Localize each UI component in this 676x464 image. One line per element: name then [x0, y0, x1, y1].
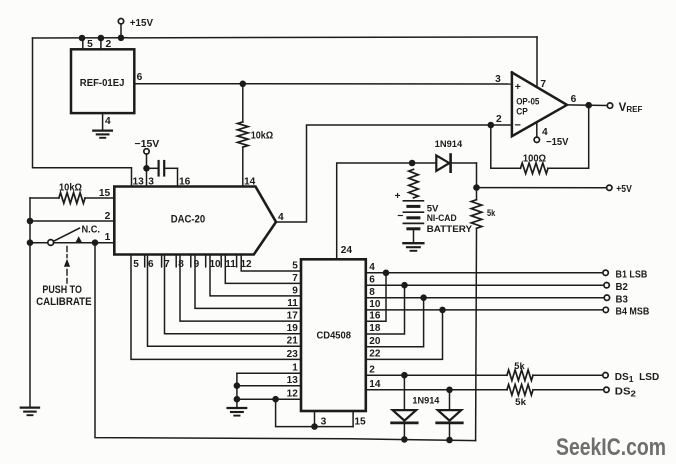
- svg-text:B4 MSB: B4 MSB: [616, 307, 650, 318]
- svg-text:9: 9: [194, 259, 200, 270]
- svg-text:5: 5: [292, 260, 298, 271]
- svg-text:1N914: 1N914: [412, 396, 439, 406]
- svg-text:B2: B2: [616, 282, 629, 293]
- svg-text:23: 23: [287, 349, 299, 360]
- svg-text:4: 4: [278, 212, 284, 223]
- svg-text:6: 6: [148, 259, 154, 270]
- svg-text:+5V: +5V: [616, 184, 632, 195]
- svg-text:2: 2: [105, 211, 111, 222]
- svg-text:7: 7: [540, 79, 546, 90]
- svg-text:100Ω: 100Ω: [523, 154, 546, 165]
- svg-text:B1 LSB: B1 LSB: [616, 269, 648, 280]
- svg-text:−15V: −15V: [546, 137, 569, 148]
- svg-text:1N914: 1N914: [435, 139, 463, 149]
- svg-text:1: 1: [292, 363, 298, 374]
- svg-text:24: 24: [341, 245, 353, 256]
- svg-text:7: 7: [292, 273, 298, 284]
- svg-text:21: 21: [287, 336, 299, 347]
- svg-text:11: 11: [287, 298, 298, 309]
- svg-text:12: 12: [240, 259, 252, 270]
- svg-text:CP: CP: [516, 106, 528, 117]
- svg-text:2: 2: [496, 114, 502, 125]
- svg-text:10kΩ: 10kΩ: [251, 131, 273, 142]
- svg-text:4: 4: [369, 262, 375, 273]
- svg-text:6: 6: [369, 274, 375, 285]
- svg-text:CD4508: CD4508: [317, 330, 352, 341]
- svg-text:3: 3: [495, 74, 501, 85]
- svg-text:2: 2: [369, 364, 375, 375]
- svg-text:14: 14: [369, 379, 381, 390]
- svg-text:REF-01EJ: REF-01EJ: [80, 78, 125, 89]
- svg-text:DAC-20: DAC-20: [171, 214, 206, 226]
- svg-text:6: 6: [137, 72, 143, 83]
- svg-text:NI-CAD: NI-CAD: [427, 212, 457, 223]
- svg-text:10kΩ: 10kΩ: [59, 183, 82, 194]
- svg-text:2: 2: [105, 39, 111, 50]
- svg-text:22: 22: [369, 349, 381, 360]
- svg-text:1: 1: [105, 232, 111, 243]
- svg-text:SeekIC.com: SeekIC.com: [556, 435, 666, 461]
- svg-text:12: 12: [287, 389, 299, 400]
- svg-text:10: 10: [209, 259, 221, 270]
- svg-text:−: −: [515, 120, 521, 132]
- svg-text:7: 7: [164, 259, 170, 270]
- svg-text:5k: 5k: [515, 397, 526, 408]
- svg-text:9: 9: [292, 285, 298, 296]
- svg-text:DS1 LSD: DS1 LSD: [615, 372, 659, 384]
- svg-text:−: −: [397, 210, 403, 222]
- svg-text:CALIBRATE: CALIBRATE: [36, 296, 92, 308]
- svg-text:15: 15: [99, 188, 111, 199]
- svg-text:+: +: [395, 191, 401, 202]
- svg-text:N.C.: N.C.: [82, 224, 101, 235]
- svg-text:BATTERY: BATTERY: [427, 223, 473, 234]
- svg-text:8: 8: [369, 287, 375, 298]
- svg-text:10: 10: [369, 299, 381, 310]
- svg-text:6: 6: [571, 94, 577, 105]
- svg-text:5: 5: [133, 259, 139, 270]
- svg-text:18: 18: [369, 323, 381, 334]
- svg-text:+15V: +15V: [130, 18, 154, 29]
- svg-text:13: 13: [287, 375, 299, 386]
- svg-text:11: 11: [225, 259, 236, 270]
- svg-text:5k: 5k: [514, 361, 525, 372]
- svg-text:+: +: [515, 81, 521, 93]
- svg-text:3: 3: [321, 417, 327, 428]
- svg-text:15: 15: [354, 417, 366, 428]
- svg-text:16: 16: [369, 311, 381, 322]
- svg-text:5k: 5k: [487, 208, 496, 218]
- svg-text:4: 4: [105, 116, 111, 127]
- svg-text:DS2: DS2: [615, 386, 636, 398]
- svg-text:8: 8: [178, 259, 184, 270]
- svg-text:PUSH TO: PUSH TO: [42, 284, 82, 296]
- svg-text:19: 19: [287, 323, 299, 334]
- svg-text:B3: B3: [616, 294, 629, 305]
- svg-text:17: 17: [287, 311, 299, 322]
- svg-text:5: 5: [87, 39, 93, 50]
- svg-text:20: 20: [369, 336, 381, 347]
